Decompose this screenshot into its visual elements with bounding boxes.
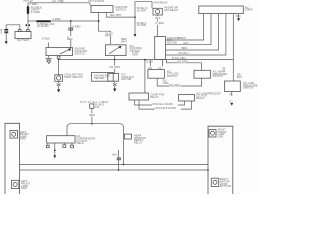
svg-text:14 RED: 14 RED xyxy=(31,11,40,14)
grommet right bottom xyxy=(211,178,218,186)
wire fuse riser xyxy=(135,2,152,17)
svg-text:FAN RELAY: FAN RELAY xyxy=(164,9,179,12)
wire clutch stub 2 tail xyxy=(54,151,56,156)
svg-text:BLK: BLK xyxy=(156,17,161,20)
connector inline xyxy=(69,28,71,30)
wire to press switch B xyxy=(167,60,202,71)
svg-text:MOTOR: MOTOR xyxy=(167,41,177,44)
wire low press tail xyxy=(231,92,233,97)
svg-text:HOT IN RUN: HOT IN RUN xyxy=(89,0,105,3)
cycling switch S4 xyxy=(148,70,165,79)
wire bus to ignition stub xyxy=(51,20,99,22)
wire relay output xyxy=(157,15,159,16)
svg-text:GRN: GRN xyxy=(132,54,138,57)
ignition switch S1 xyxy=(91,6,113,13)
wire pin3 xyxy=(166,14,219,50)
wire blk drop xyxy=(118,150,120,157)
svg-text:BLU: BLU xyxy=(237,76,242,79)
svg-text:16: 16 xyxy=(222,69,225,72)
junction fuse feed xyxy=(134,16,136,18)
comp2 inner connector xyxy=(108,74,119,82)
temp switch top stub xyxy=(48,43,50,48)
junction ignition bus xyxy=(98,20,100,22)
wire main run xyxy=(59,59,234,61)
wire pin1 xyxy=(166,14,204,40)
grommet left bottom xyxy=(11,180,19,188)
wire battery left lead xyxy=(6,25,20,30)
svg-text:BRN: BRN xyxy=(182,47,188,50)
coolant switch lever xyxy=(109,47,120,54)
wire comp2 ground lead xyxy=(114,81,116,83)
svg-text:SWITCH: SWITCH xyxy=(167,75,178,78)
wire splice W2 xyxy=(139,101,192,110)
ground G104 xyxy=(237,18,240,21)
wire to comp2 xyxy=(114,69,116,74)
connector arrow clutch xyxy=(53,155,56,158)
connector dashes xyxy=(46,58,52,59)
right body panel xyxy=(208,126,233,194)
svg-text:C RED: C RED xyxy=(156,22,164,25)
svg-text:WHT: WHT xyxy=(105,35,111,38)
junction rule2 right xyxy=(207,169,209,171)
svg-text:10A: 10A xyxy=(95,106,100,109)
wire temp sw ground stub xyxy=(48,56,50,58)
wire fuse lower drop xyxy=(134,17,136,34)
fuse F5 xyxy=(90,104,94,108)
ground G103 xyxy=(113,89,116,92)
svg-text:ORG: ORG xyxy=(163,82,169,85)
connector C100 dots xyxy=(26,24,28,26)
svg-text:DG ORG: DG ORG xyxy=(170,84,181,87)
svg-text:RELAY: RELAY xyxy=(151,96,160,99)
wire ignition right stub xyxy=(106,13,135,18)
wire battery feed top horizontal xyxy=(28,2,90,4)
clutch relay K2 xyxy=(179,95,195,101)
svg-text:16 DGRN: 16 DGRN xyxy=(37,25,49,28)
wire B bottom to A bottom xyxy=(157,78,201,86)
connector inline bottom xyxy=(117,158,118,160)
connector clutch 1 xyxy=(46,145,49,148)
junction loop rule1 xyxy=(123,164,125,166)
left body panel xyxy=(5,123,20,194)
node DG ORG label xyxy=(177,60,188,63)
svg-text:GRY: GRY xyxy=(183,42,189,45)
ground strap bars xyxy=(4,29,8,30)
junction loop top xyxy=(91,123,93,125)
wire ground drop xyxy=(5,33,7,41)
svg-text:SWITCH: SWITCH xyxy=(75,52,86,55)
svg-text:BOTTOM: BOTTOM xyxy=(220,185,231,188)
wire pin2 xyxy=(166,14,212,45)
node RED label bottom xyxy=(89,113,95,117)
coolant switch S2 xyxy=(106,45,127,56)
svg-text:BLK: BLK xyxy=(236,15,241,18)
svg-text:DG BLU: DG BLU xyxy=(179,52,189,55)
wire pin5 riser xyxy=(232,14,234,60)
junction comp2 main xyxy=(114,59,116,61)
wire battery vertical top xyxy=(27,3,29,6)
wire relay to motor xyxy=(157,25,159,37)
svg-text:DG ORG: DG ORG xyxy=(177,60,188,63)
fusible link A xyxy=(27,6,29,14)
node W2 label xyxy=(155,106,181,110)
connector clutch 3 xyxy=(63,145,66,148)
wire connector ground stub xyxy=(238,14,240,18)
svg-text:BLK: BLK xyxy=(112,154,117,157)
junction blk rule2 xyxy=(118,169,120,171)
junction main to LBox xyxy=(144,59,146,61)
node stub2 label xyxy=(157,66,163,70)
svg-text:SPLICE A DGRN: SPLICE A DGRN xyxy=(152,103,172,106)
wire ignition left stub xyxy=(99,13,111,45)
wire bottom loop xyxy=(67,124,124,165)
wire splice W1 xyxy=(135,101,185,106)
svg-text:SWITCH: SWITCH xyxy=(243,87,254,90)
wire cycling sw stub 2 xyxy=(161,60,163,70)
fusible link B xyxy=(36,20,51,22)
wire bus thin left xyxy=(28,20,36,22)
wire comp2 ground lead 2 xyxy=(114,86,116,89)
node DG GRN label xyxy=(109,66,120,69)
wire comp1 drop xyxy=(58,60,60,75)
svg-text:LT BLU: LT BLU xyxy=(177,37,186,40)
splice X mark xyxy=(57,83,61,86)
svg-text:RELAY: RELAY xyxy=(196,97,205,100)
temp switch S3 xyxy=(46,48,73,56)
ground rule 1 xyxy=(20,164,208,166)
svg-text:RELAY: RELAY xyxy=(134,142,143,145)
wire pin4 xyxy=(166,14,226,55)
node DG ORG 3 label xyxy=(169,83,181,87)
node stub1 label xyxy=(148,66,154,70)
battery B1 xyxy=(15,32,31,39)
junction bus A xyxy=(70,20,72,22)
svg-text:14 BLK: 14 BLK xyxy=(42,38,51,41)
svg-text:RED: RED xyxy=(89,114,95,117)
wire blk drop 2 xyxy=(118,160,120,170)
svg-text:RED: RED xyxy=(67,38,73,41)
svg-text:20 AMP: 20 AMP xyxy=(137,24,147,27)
node A RED 2 label xyxy=(67,36,74,41)
svg-text:DG GRN: DG GRN xyxy=(110,66,121,69)
connector arrow down xyxy=(134,34,137,37)
svg-text:14: 14 xyxy=(229,93,232,96)
svg-text:G: G xyxy=(0,32,2,35)
grommet right top xyxy=(209,130,216,138)
coolant fan switch U2 xyxy=(55,75,63,82)
svg-text:HEATER: HEATER xyxy=(94,77,105,80)
relay K1 xyxy=(153,8,162,15)
wire battery tab drop xyxy=(27,26,29,29)
svg-text:TEMP SWITCH: TEMP SWITCH xyxy=(64,76,83,79)
ground G101 xyxy=(47,61,51,64)
node C3 label xyxy=(155,22,164,25)
wire low press feed xyxy=(232,60,234,81)
wire comp1 ground lead 2 xyxy=(58,86,60,89)
svg-text:A RED: A RED xyxy=(73,26,81,29)
svg-text:SWITCH: SWITCH xyxy=(116,8,127,11)
wire clutch stub 3 xyxy=(63,143,65,145)
svg-text:BATTERY: BATTERY xyxy=(18,39,30,42)
svg-text:BLK WHT: BLK WHT xyxy=(110,14,122,17)
compressor clutch CL1 xyxy=(47,136,76,143)
svg-text:SPLICE B DGRN: SPLICE B DGRN xyxy=(155,107,176,110)
wire clutch stub 2 xyxy=(54,143,56,150)
wire relay output 2 xyxy=(157,19,159,21)
svg-text:10 AMP: 10 AMP xyxy=(137,9,147,12)
low pressure switch S5 xyxy=(225,81,241,92)
svg-text:FAN RELAY: FAN RELAY xyxy=(154,2,169,5)
wire clutch stub 1 xyxy=(47,143,49,145)
press switch B xyxy=(194,70,211,78)
svg-text:GRD: GRD xyxy=(20,138,26,141)
battery terminal right xyxy=(27,30,30,32)
svg-text:GRD: GRD xyxy=(21,187,27,190)
svg-text:WHT: WHT xyxy=(121,41,127,44)
wire clutch stub 4 xyxy=(71,143,73,145)
wire LBox drop xyxy=(144,60,146,93)
grommet left top xyxy=(10,131,18,139)
svg-text:GRD: GRD xyxy=(218,136,224,139)
junction main wire left xyxy=(58,59,60,61)
engine connector C200 xyxy=(199,6,244,14)
svg-text:COMP: COMP xyxy=(245,9,253,12)
svg-text:A RED: A RED xyxy=(53,18,61,21)
svg-text:B DG: B DG xyxy=(147,61,154,64)
ground rule 2 xyxy=(20,169,208,171)
comp2 fan heater assembly U3 xyxy=(92,72,114,81)
wire coolant switch drop xyxy=(114,56,116,66)
wire temp switch feed xyxy=(70,21,72,48)
svg-text:SWITCH: SWITCH xyxy=(213,75,224,78)
ground G102 xyxy=(57,89,60,92)
wire battery vertical mid xyxy=(27,14,29,24)
wire cycling sw stub 1 xyxy=(149,60,151,70)
wire comp1 ground lead xyxy=(58,81,60,83)
svg-text:FIELD: FIELD xyxy=(76,142,84,145)
node W1 label xyxy=(152,102,178,106)
wire ignition feed drop xyxy=(89,3,91,6)
svg-text:FAN SW: FAN SW xyxy=(121,78,132,81)
wire fuse drop bottom xyxy=(91,108,93,123)
connector clutch 4 xyxy=(71,145,74,148)
junction clutch stub xyxy=(54,149,56,151)
battery terminal left xyxy=(19,30,22,32)
connector ring xyxy=(57,56,60,59)
radiator fan motor M1 xyxy=(155,37,166,60)
splice X mark 2 xyxy=(113,83,117,86)
splice box L xyxy=(129,93,149,100)
svg-text:B DG GRN: B DG GRN xyxy=(172,57,185,60)
temp switch lever xyxy=(60,49,70,54)
ground G100 xyxy=(5,41,8,44)
diode box xyxy=(124,134,131,139)
node BLK label xyxy=(155,16,162,19)
node 14 BLK label xyxy=(105,32,114,37)
wire temp sw out xyxy=(58,55,60,58)
